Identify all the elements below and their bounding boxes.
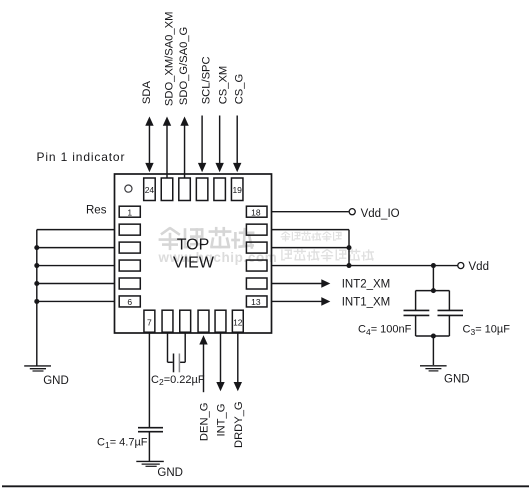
svg-text:Pin 1 indicator: Pin 1 indicator bbox=[37, 150, 126, 164]
pin 13 pad bbox=[246, 296, 267, 307]
watermark small text line 2 bbox=[282, 250, 291, 260]
pin 2 pad bbox=[119, 224, 140, 235]
pin 9 pad bbox=[180, 310, 191, 332]
svg-text:GND: GND bbox=[444, 374, 470, 386]
wire down to right ground bbox=[432, 336, 434, 365]
svg-text:12: 12 bbox=[233, 318, 243, 328]
pin 1 indicator circle bbox=[125, 185, 132, 192]
pin 6 pad bbox=[119, 296, 140, 307]
junction node bottom rail bbox=[431, 334, 436, 339]
wire pin 8 down to C2 bbox=[167, 333, 169, 362]
wire pin 6 to ground bus bbox=[37, 300, 115, 302]
pin 23 pad bbox=[161, 178, 173, 201]
pin 11 pad bbox=[215, 310, 226, 332]
pin 14 pad bbox=[246, 278, 267, 289]
ground symbol right bbox=[420, 365, 447, 367]
wire C1 to ground bbox=[148, 432, 150, 462]
terminal Vdd open circle bbox=[458, 263, 464, 269]
wire CS_G (pin 19) input arrow bbox=[236, 116, 238, 164]
wire INT_G (pin 11) output arrow bbox=[220, 333, 222, 382]
svg-text:CS_G: CS_G bbox=[233, 74, 245, 104]
junction node pin16/pin17 bbox=[347, 245, 352, 250]
pin 10 pad bbox=[198, 310, 209, 332]
junction node on ground bus bbox=[34, 299, 39, 304]
wire DEN_G (pin 10) input arrow bbox=[203, 344, 205, 392]
pin 1 pad bbox=[119, 206, 140, 217]
wire DRDY_G (pin 12) output arrow bbox=[237, 333, 239, 382]
pin 4 pad bbox=[119, 260, 140, 271]
watermark small text line 1 bbox=[281, 232, 290, 241]
junction node on ground bus bbox=[34, 263, 39, 268]
pin 17 pad bbox=[246, 224, 267, 235]
pin 18 pad bbox=[246, 206, 267, 217]
svg-text:TOP: TOP bbox=[177, 237, 210, 254]
wire CS_XM (pin 20) input arrow bbox=[219, 116, 221, 164]
svg-text:GND: GND bbox=[157, 467, 183, 479]
svg-text:1: 1 bbox=[127, 207, 132, 217]
wire down to C3 bbox=[448, 291, 450, 311]
ground symbol left bbox=[24, 365, 51, 367]
wire pin 17 bbox=[272, 229, 350, 231]
svg-text:GND: GND bbox=[43, 375, 69, 387]
wire down to C4 bbox=[415, 291, 417, 311]
pin 22 pad bbox=[179, 178, 191, 201]
page footer rule bbox=[2, 485, 529, 487]
pin 5 pad bbox=[119, 278, 140, 289]
svg-text:6: 6 bbox=[127, 297, 132, 307]
svg-text:DRDY_G: DRDY_G bbox=[233, 401, 245, 448]
wire pin 14 INT2_XM arrow bbox=[272, 283, 322, 285]
wire pin 15 to Vdd terminal bbox=[272, 265, 458, 267]
junction node on ground bus bbox=[34, 245, 39, 250]
wire pin 9 down to C2 bbox=[184, 333, 186, 362]
svg-text:CS_XM: CS_XM bbox=[217, 66, 229, 105]
wire pin 13 INT1_XM arrow bbox=[272, 300, 322, 302]
svg-text:SCL/SPC: SCL/SPC bbox=[200, 56, 212, 104]
svg-text:DEN_G: DEN_G bbox=[199, 403, 211, 442]
svg-text:INT1_XM: INT1_XM bbox=[342, 297, 391, 309]
wire SCL/SPC (pin 21) input arrow bbox=[201, 116, 203, 164]
pin 21 pad bbox=[196, 178, 208, 201]
svg-text:13: 13 bbox=[251, 297, 261, 307]
IC package U1 (LGA-24 top view) bbox=[115, 174, 272, 333]
svg-text:C4= 100nF: C4= 100nF bbox=[358, 324, 412, 337]
svg-text:C1= 4.7µF: C1= 4.7µF bbox=[97, 437, 148, 450]
junction node on ground bus bbox=[34, 281, 39, 286]
pin 12 pad bbox=[232, 310, 243, 332]
svg-text:18: 18 bbox=[251, 207, 261, 217]
junction node Vdd to capacitors bbox=[431, 263, 436, 268]
capacitor C4 bbox=[404, 309, 430, 311]
wire capacitor top rail bbox=[416, 290, 450, 292]
wire pin 5 to ground bus bbox=[37, 283, 115, 285]
wire SDO_XM/SA0_XM (pin 23) output arrow bbox=[166, 125, 168, 179]
terminal Vdd_IO open circle bbox=[349, 209, 355, 215]
wire capacitor bottom rail bbox=[416, 335, 450, 337]
svg-text:VIEW: VIEW bbox=[173, 255, 215, 272]
pin 16 pad bbox=[246, 242, 267, 253]
svg-text:INT2_XM: INT2_XM bbox=[342, 279, 391, 291]
ground bus vertical wire bbox=[36, 230, 38, 366]
svg-text:19: 19 bbox=[232, 185, 242, 195]
wire pin 18 to Vdd_IO terminal bbox=[272, 211, 349, 213]
wire pin17 corner down to Vdd net bbox=[348, 230, 350, 266]
junction node pin15/pin17 net bbox=[347, 263, 352, 268]
pin 20 pad bbox=[214, 178, 226, 201]
wire pin 4 to ground bus bbox=[37, 265, 115, 267]
svg-text:SDO_XM/SA0_XM: SDO_XM/SA0_XM bbox=[163, 12, 175, 107]
svg-text:C2=0.22µF: C2=0.22µF bbox=[151, 374, 205, 387]
svg-text:C3= 10µF: C3= 10µF bbox=[463, 324, 511, 337]
svg-text:Vdd_IO: Vdd_IO bbox=[361, 208, 400, 220]
svg-text:Vdd: Vdd bbox=[469, 261, 489, 273]
watermark big text (hqchip logo, faux glyph strokes) bbox=[160, 229, 180, 249]
junction node capacitor rail bbox=[431, 288, 436, 293]
svg-text:SDO_G/SA0_G: SDO_G/SA0_G bbox=[178, 27, 190, 105]
wire pin 16 bbox=[272, 247, 350, 249]
pin 15 pad bbox=[246, 260, 267, 271]
pin 8 pad bbox=[162, 310, 173, 332]
svg-text:24: 24 bbox=[145, 185, 155, 195]
wire SDA (pin 24) bidirectional arrow bbox=[148, 125, 150, 165]
svg-text:7: 7 bbox=[147, 318, 152, 328]
capacitor C1 bbox=[138, 427, 163, 429]
wire SDO_G/SA0_G (pin 22) output arrow bbox=[184, 125, 186, 179]
wire pin 7 down to C1 bbox=[148, 333, 150, 428]
wire pin 2 to ground bus bbox=[37, 229, 115, 231]
pin 3 pad bbox=[119, 242, 140, 253]
pin 24 pad bbox=[144, 178, 156, 201]
pin 7 pad bbox=[144, 310, 155, 332]
wire pin 3 to ground bus bbox=[37, 247, 115, 249]
svg-text:Res: Res bbox=[86, 205, 107, 217]
ground symbol bottom bbox=[136, 460, 164, 462]
wire Vdd node down to capacitor rail bbox=[432, 266, 434, 291]
wire C4 bottom bbox=[415, 315, 417, 336]
svg-text:SDA: SDA bbox=[141, 81, 153, 105]
wire C3 bottom bbox=[448, 315, 450, 336]
capacitor C3 bbox=[438, 309, 464, 311]
pin 19 pad bbox=[231, 178, 243, 201]
svg-text:INT_G: INT_G bbox=[216, 404, 228, 437]
capacitor C2 left plate bbox=[173, 354, 175, 373]
capacitor C2 right plate bbox=[178, 354, 180, 373]
